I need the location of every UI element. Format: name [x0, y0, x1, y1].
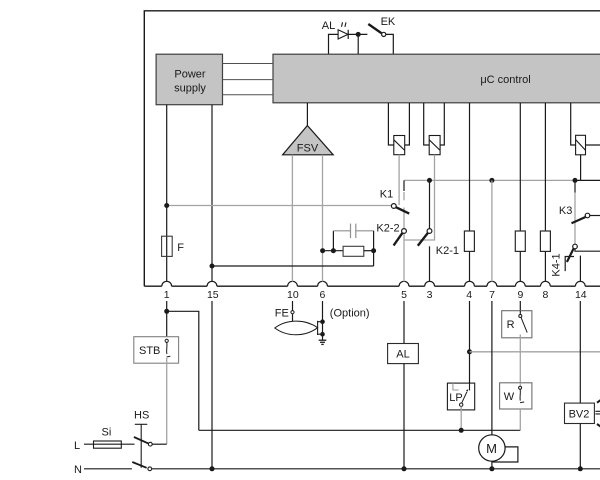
switch K2-1 [418, 229, 432, 246]
load output terminal 4 [464, 231, 474, 251]
switch K3 [572, 213, 600, 223]
switch EK [368, 24, 386, 37]
switch HS pole L [134, 437, 152, 446]
wire live rail bottom [199, 429, 521, 431]
switch HS pole N [132, 462, 151, 471]
capacitor C1 branch [333, 224, 373, 251]
wire N line [152, 468, 600, 470]
wire terminal 6 to RC left node [323, 250, 343, 252]
wire motor to N [491, 461, 493, 469]
node branch to live rail [164, 309, 169, 314]
svg-text:BV2: BV2 [569, 408, 590, 420]
node terminal15 junction [210, 264, 215, 269]
wire AL to N [403, 364, 405, 469]
terminal bump 14 [575, 281, 585, 286]
terminal bump 10 [288, 281, 298, 286]
wire uC to load terminal 8 [544, 103, 546, 231]
wire terminal 6 down [322, 301, 324, 340]
node on terminal 6 wire lower [320, 332, 325, 337]
alarm AL [388, 344, 419, 364]
wire K1 coil to contact (gray) [398, 155, 400, 205]
wire gray dash to K1 contact [403, 192, 405, 200]
wire terminal 15 to RC network [212, 265, 374, 267]
svg-text:K2-2: K2-2 [376, 223, 399, 235]
wire LP to rail (gray) [460, 406, 462, 430]
node on terminal 6 wire upper [320, 319, 325, 324]
wire terminal 5 to AL [403, 301, 405, 344]
switch K4-1 [565, 244, 577, 271]
load output terminal 8 [540, 231, 550, 251]
relay coil K1 [388, 103, 409, 155]
svg-text:EK: EK [381, 16, 396, 28]
wire N line left [84, 468, 132, 470]
svg-text:K1: K1 [380, 188, 393, 200]
wire terminal 4 to LP [469, 301, 471, 383]
wire gray branch right [470, 351, 600, 353]
wire HS to STB wire [152, 443, 167, 445]
node BV2/N junction [578, 466, 583, 471]
svg-text:HS: HS [134, 409, 149, 421]
svg-text:3: 3 [427, 289, 433, 301]
wire STB down to L (gray) [166, 358, 168, 444]
wire terminal 15 to N [211, 301, 213, 469]
wire rail to terminal 7 (gray) [491, 180, 493, 281]
node M/N junction [489, 466, 494, 471]
node rail/K3 junction [573, 178, 578, 183]
wire FSV left leg to terminal 10 [291, 155, 293, 282]
node RC right [371, 248, 376, 253]
wire K2 coil down (gray) [404, 155, 434, 240]
terminal bump 15 [207, 281, 217, 286]
LED AL [338, 22, 348, 39]
valve BV2 [565, 399, 600, 427]
node terminal1/rail junction [164, 203, 169, 208]
terminal bump 9 [515, 281, 525, 286]
terminal bump 7 [487, 281, 497, 286]
relay coil K3/K4 [571, 103, 600, 155]
svg-text:4: 4 [466, 289, 472, 301]
svg-text:K2-1: K2-1 [436, 245, 459, 257]
wire power supply to terminal 15 [211, 105, 213, 282]
svg-text:AL: AL [396, 349, 409, 361]
terminal bump 6 [318, 281, 328, 286]
wire K2-2 to terminal 5 (gray) [403, 234, 405, 282]
terminal bump 4 [465, 281, 475, 286]
connector FE [291, 311, 294, 314]
wire load to terminal 4 [469, 251, 471, 281]
svg-text:15: 15 [207, 289, 219, 301]
svg-text:5: 5 [401, 289, 407, 301]
wire RC right node down to line [373, 251, 375, 266]
terminal bump 3 [425, 281, 435, 286]
terminal bump 8 [541, 281, 551, 286]
svg-text:1: 1 [164, 289, 170, 301]
wire coil K3 down to rail [580, 155, 582, 181]
svg-text:W: W [504, 391, 515, 403]
svg-text:Si: Si [102, 427, 112, 439]
wire junction down to uC box [357, 34, 359, 54]
node AL/N junction [402, 466, 407, 471]
svg-text:Power: Power [174, 68, 206, 80]
wire bus power supply to uC (3 lines) [223, 64, 274, 95]
wire FE into electrode [292, 314, 294, 324]
node rail/terminal7 junction [489, 178, 494, 183]
wire R to W (gray) [519, 335, 521, 383]
pressure switch LP [447, 383, 474, 410]
svg-text:AL: AL [322, 20, 335, 32]
node 15/N junction [210, 466, 215, 471]
wire terminal 10 to flame electrode [292, 301, 294, 311]
node terminal4 branch [467, 349, 472, 354]
wire to terminal 14 [579, 256, 581, 282]
node junction on AL/EK wire [356, 32, 361, 37]
terminal bump 1 [162, 281, 172, 286]
wire EK to uC box [386, 34, 394, 54]
svg-text:FSV: FSV [297, 143, 319, 155]
wire resistor to right node [364, 250, 374, 252]
svg-text:K3: K3 [559, 205, 572, 217]
ground [319, 340, 327, 344]
wire diode to EK [348, 33, 367, 35]
flame electrode lens [275, 321, 318, 335]
svg-text:supply: supply [174, 82, 206, 94]
amplifier FSV [283, 126, 334, 155]
thermostat R [502, 311, 532, 338]
motor M [479, 435, 518, 462]
node RC left on terminal 6 wire [320, 248, 325, 253]
wire load to terminal 9 [519, 251, 521, 281]
wire bar to terminal 6 (two links) [318, 322, 323, 335]
uC control box U1 [273, 54, 600, 103]
resistor R snubber [343, 246, 364, 256]
fuse Si [94, 441, 122, 448]
thermostat STB [134, 337, 179, 364]
svg-text:7: 7 [489, 289, 495, 301]
node LP/rail junction [459, 428, 464, 433]
outer frame of control unit [144, 11, 600, 286]
svg-text:M: M [486, 441, 497, 456]
svg-text:14: 14 [575, 289, 587, 301]
svg-text:(Option): (Option) [330, 308, 370, 320]
switch HS actuator link [135, 424, 148, 468]
black rail 180 right part [575, 179, 600, 181]
wire FSV right leg to terminal 6 [322, 155, 324, 282]
svg-text:N: N [74, 464, 82, 476]
svg-text:FE: FE [275, 308, 289, 320]
wire gray rail to K1 [167, 205, 392, 207]
wire BV2 to N [579, 424, 581, 469]
svg-text:K4-1: K4-1 [551, 253, 563, 276]
wire load to terminal 8 [544, 251, 546, 281]
wire terminal 14 to BV2 [579, 301, 581, 403]
wire uC to load terminal 4 [469, 103, 471, 231]
thermostat W [500, 383, 532, 409]
wire K4-1 right to edge [575, 249, 600, 251]
wire L line [84, 443, 135, 445]
electrode right bar [317, 321, 319, 335]
wire terminal 1 down [166, 301, 168, 339]
svg-text:6: 6 [319, 289, 325, 301]
svg-text:F: F [177, 242, 184, 254]
svg-text:STB: STB [139, 345, 160, 357]
svg-text:10: 10 [287, 289, 299, 301]
svg-text:LP: LP [449, 392, 462, 404]
relay coil K2 [424, 103, 445, 155]
node RC left [331, 248, 336, 253]
gray rail 180 [404, 179, 575, 181]
terminal bump 5 [399, 281, 409, 286]
node rail/K2-1 junction [427, 178, 432, 183]
svg-text:8: 8 [542, 289, 548, 301]
wire uC/power to terminal 1 [166, 105, 168, 282]
switch K1 [391, 204, 409, 214]
wire gray between K1 arm and K2-2 [403, 208, 405, 229]
wire stub below rail corner [403, 180, 405, 191]
wire terminal 7 to motor [491, 301, 493, 435]
wire uC to FSV [306, 103, 308, 126]
wire from uC top to AL diode [329, 34, 339, 54]
wire K2-1 to terminal 3 [429, 246, 431, 281]
power supply box [156, 54, 222, 104]
svg-text:μC control: μC control [480, 74, 530, 86]
fuse F [162, 236, 173, 256]
svg-text:L: L [74, 440, 80, 452]
wire W down to rail corner (gray) [519, 409, 521, 430]
svg-text:R: R [507, 319, 515, 331]
wire uC to load terminal 9 [519, 103, 521, 231]
svg-text:9: 9 [517, 289, 523, 301]
load output terminal 9 [515, 231, 525, 251]
wire branch to vertical [167, 311, 199, 430]
wire junction down to K4-1 (black stub then gray) [574, 180, 576, 192]
wire rail to K2-1 [429, 180, 431, 228]
switch K2-2 [394, 229, 407, 246]
wire terminal 9 to R [519, 301, 521, 311]
